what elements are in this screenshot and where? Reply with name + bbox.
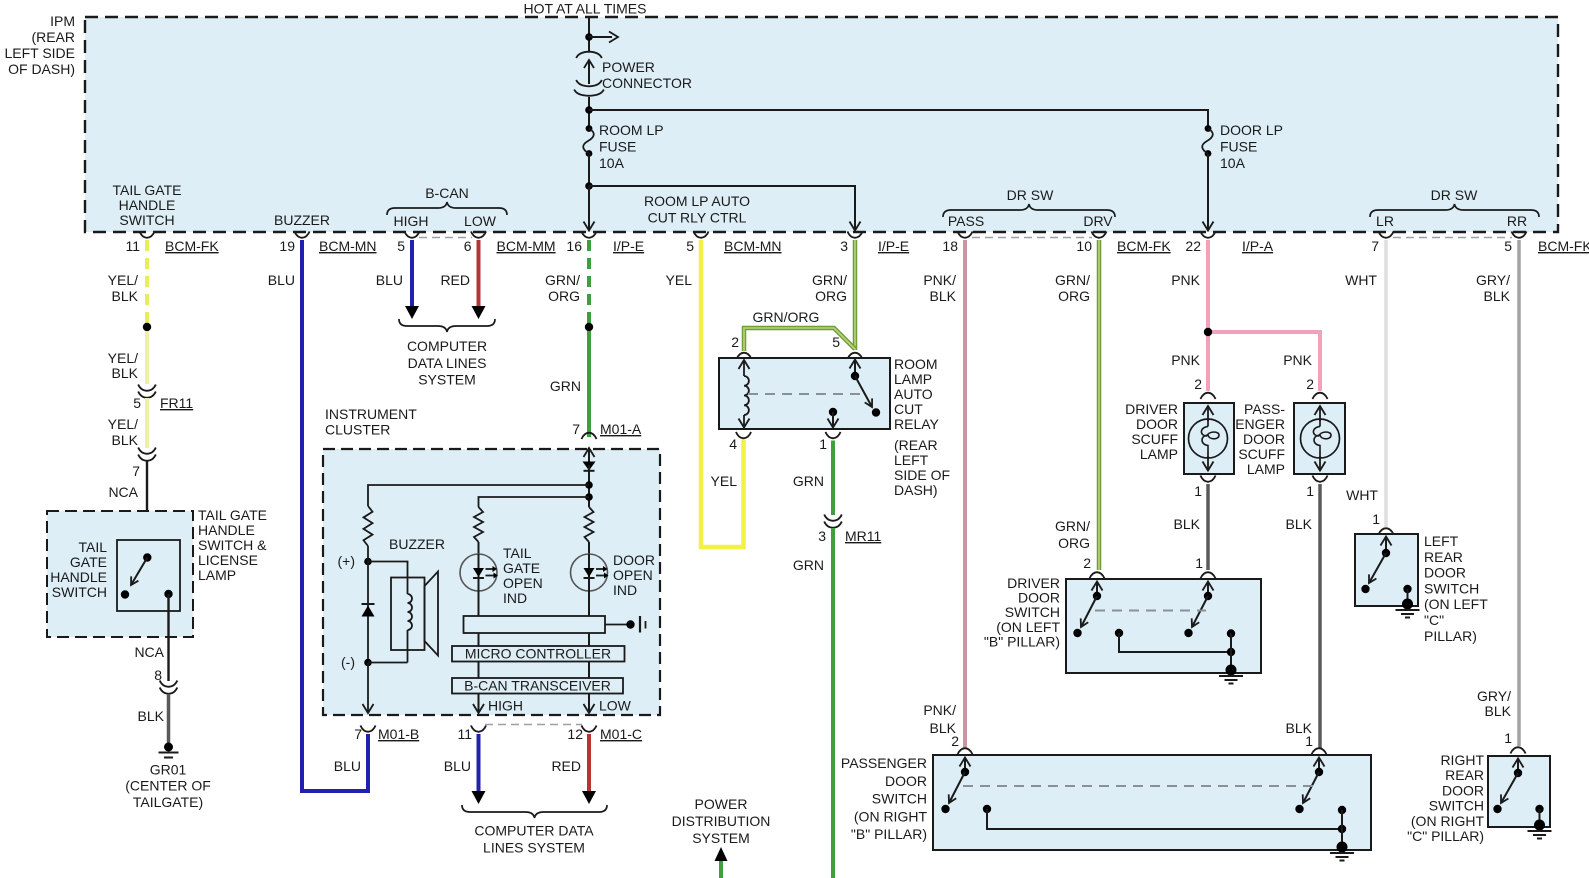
svg-text:1: 1 [1195,555,1203,571]
svg-text:3: 3 [840,238,848,254]
svg-text:TAILGATE): TAILGATE) [133,794,203,810]
room lamp auto cut relay box [719,356,950,498]
svg-text:SWITCH: SWITCH [52,584,107,600]
svg-text:TAIL GATE: TAIL GATE [113,182,182,198]
svg-text:GRY/: GRY/ [1477,688,1511,704]
LED tail gate open ind [460,542,543,606]
wire branch to other circuits with arrow [589,32,618,43]
pin 22 connector I/P-A on IPM [1185,232,1273,255]
svg-text:DOOR: DOOR [1442,782,1484,798]
svg-text:DOOR: DOOR [1243,431,1285,447]
relay pin 2 connector [731,334,751,359]
ground driver door switch [1219,665,1243,684]
svg-text:BLK: BLK [112,365,139,381]
node room lamp branch junction [585,182,593,190]
svg-text:10A: 10A [599,155,625,171]
svg-text:GRN/: GRN/ [1055,518,1090,534]
resistor tail gate ind [474,507,483,542]
svg-text:LOW: LOW [599,698,632,714]
right rear door switch ground path [1535,805,1543,825]
node fuse feed junction [585,106,593,114]
svg-text:DATA LINES: DATA LINES [408,355,487,371]
svg-text:SWITCH: SWITCH [1005,604,1060,620]
svg-text:BLK: BLK [930,288,957,304]
left rear door switch box [1355,533,1488,644]
svg-text:5: 5 [1504,238,1512,254]
pin 5 connector (group) on IPM [397,232,419,255]
svg-text:TAIL: TAIL [78,539,107,555]
svg-text:YEL/: YEL/ [108,416,138,432]
relay mechanical link (dashed) [748,393,863,395]
svg-text:ROOM LP: ROOM LP [599,122,664,138]
svg-text:BLK: BLK [138,708,165,724]
svg-text:ROOM LP AUTO: ROOM LP AUTO [644,193,750,209]
svg-text:SWITCH &: SWITCH & [198,537,267,553]
svg-text:3: 3 [818,528,826,544]
svg-text:7: 7 [354,726,362,742]
svg-text:I/P-A: I/P-A [1242,238,1274,254]
driver door switch connector pin 1 [1195,555,1215,579]
svg-text:LEFT: LEFT [1424,533,1459,549]
passenger door switch connector pin 1 [1305,733,1326,755]
label LOW (pin 6) [464,213,497,229]
svg-text:8: 8 [154,667,162,683]
svg-text:FUSE: FUSE [599,139,636,155]
svg-text:BUZZER: BUZZER [389,536,445,552]
pin 3 connector I/P-E on IPM [840,232,909,255]
connector group dash M01 pins 11-12 [485,724,582,726]
svg-text:COMPUTER DATA: COMPUTER DATA [474,823,594,839]
label DR SW brace left [943,187,1115,217]
connector M01 pin 11 [457,726,486,743]
svg-text:SYSTEM: SYSTEM [692,830,750,846]
pin 5 connector BCM-FK on IPM [1504,232,1589,255]
driver door switch connector pin 2 [1083,555,1104,579]
passenger door scuff lamp [1235,401,1345,477]
connector MR11 pin 3 [818,515,881,545]
svg-text:ENGER: ENGER [1235,416,1285,432]
svg-text:RED: RED [551,758,581,774]
svg-text:1: 1 [1504,730,1512,746]
svg-text:SCUFF: SCUFF [1131,431,1178,447]
svg-text:DISTRIBUTION: DISTRIBUTION [672,813,771,829]
svg-text:SWITCH: SWITCH [1429,798,1484,814]
svg-text:4: 4 [729,436,737,452]
svg-text:BLK: BLK [112,432,139,448]
buzzer sounder box and horn [391,572,438,656]
svg-text:HIGH: HIGH [394,213,429,229]
wire PNK to driver scuff lamp [1171,332,1208,391]
svg-text:LR: LR [1376,213,1394,229]
label PASS (pin 18) [948,213,984,229]
svg-text:(ON LEFT: (ON LEFT [1424,596,1488,612]
label B-CAN brace [387,185,507,215]
svg-text:ROOM: ROOM [894,356,938,372]
node splice YEL/BLK [143,323,151,331]
connector group dash BCM-FK pins 18-10 [972,237,1092,239]
svg-text:2: 2 [1194,376,1202,392]
left rear door switch connector pin 1 [1372,511,1393,535]
svg-text:2: 2 [731,334,739,350]
svg-text:DOOR: DOOR [885,773,927,789]
svg-text:ORG: ORG [1058,535,1090,551]
wire battery feed [588,17,590,51]
IC entry diode from M01-A [583,448,596,507]
svg-text:7: 7 [572,421,580,437]
svg-text:SWITCH: SWITCH [1424,580,1479,596]
wire YEL/BLK from pin 11 (dashed) [108,240,147,327]
wire YEL pin 5 to relay pin 4 [666,240,744,547]
svg-text:BLK: BLK [1286,516,1313,532]
svg-text:(-): (-) [341,654,355,670]
svg-text:I/P-E: I/P-E [613,238,644,254]
svg-text:BCM-FK: BCM-FK [165,238,219,254]
svg-text:22: 22 [1185,238,1201,254]
label LR (pin 7) [1376,213,1394,229]
tail gate handle switch inner box [117,540,180,611]
svg-text:PNK/: PNK/ [923,702,956,718]
left rear door switch ground path [1403,585,1411,604]
svg-text:M01-A: M01-A [600,421,642,437]
svg-text:IND: IND [503,590,527,606]
svg-text:ORG: ORG [1058,288,1090,304]
svg-text:SWITCH: SWITCH [119,212,174,228]
label ROOM LP AUTO CUT RLY CTRL (pin 3) [644,193,750,226]
wire GRN/ORG pin 10 to driver door switch [1055,240,1099,570]
svg-text:BCM-MN: BCM-MN [724,238,782,254]
svg-text:CUT RLY CTRL: CUT RLY CTRL [648,210,747,226]
connector M01-C pin 12 [567,726,642,743]
svg-text:HIGH: HIGH [488,698,523,714]
svg-text:WHT: WHT [1345,272,1377,288]
svg-text:RIGHT: RIGHT [1440,752,1484,768]
svg-text:"C": "C" [1424,612,1444,628]
wire NCA pin 7 into tail gate switch [108,461,147,557]
ground left rear door switch [1396,599,1420,618]
ground right rear door switch [1528,820,1552,839]
wire BLK to GR01 [138,694,169,747]
svg-text:5: 5 [686,238,694,254]
wire IC buzzer branch [368,485,589,506]
passenger door switch blade pin 1 [1295,758,1324,814]
right rear door switch box [1407,752,1550,844]
passenger door switch mechanical link [963,785,1317,787]
svg-text:GRN/: GRN/ [812,272,847,288]
svg-text:BLK: BLK [1485,703,1512,719]
svg-text:PNK: PNK [1171,272,1200,288]
wire GRN to power distribution [719,861,723,878]
svg-text:IND: IND [613,582,637,598]
passenger door switch box [841,755,1371,850]
svg-text:"B" PILLAR): "B" PILLAR) [851,826,927,842]
svg-text:AUTO: AUTO [894,386,933,402]
svg-text:POWER: POWER [602,59,655,75]
fuse DOOR LP FUSE 10A [1202,122,1283,171]
label BUZZER (pin 19) [274,212,330,228]
wire BLU pin 19 to M01-B [268,240,368,791]
relay switch blade pin 5 [850,360,881,417]
pin 16 connector I/P-E on IPM [566,232,644,255]
svg-text:GRN: GRN [550,378,581,394]
svg-text:POWER: POWER [695,796,748,812]
svg-text:DR SW: DR SW [1007,187,1054,203]
svg-text:RELAY: RELAY [894,416,940,432]
IC chassis reference mark [605,616,646,633]
power connector symbol [574,52,692,96]
node IC tailgate branch [585,493,593,501]
wire BLU M01 pin 11 to computer data lines [444,734,486,804]
svg-text:BUZZER: BUZZER [274,212,330,228]
svg-text:"C" PILLAR): "C" PILLAR) [1407,828,1484,844]
right rear door switch blade [1493,759,1523,814]
node battery feed junction [585,33,593,41]
wire GRN splice to M01-A [550,331,589,437]
svg-text:PNK/: PNK/ [923,272,956,288]
svg-text:DRV: DRV [1083,213,1113,229]
svg-text:GATE: GATE [503,560,540,576]
wire BLK passenger scuff to passenger door switch [1286,484,1320,748]
svg-text:1: 1 [819,436,827,452]
svg-text:GR01: GR01 [150,762,187,778]
svg-text:(+): (+) [338,553,356,569]
svg-text:LINES SYSTEM: LINES SYSTEM [483,840,585,856]
svg-text:DRIVER: DRIVER [1125,401,1178,417]
svg-text:NCA: NCA [108,484,138,500]
svg-text:DR SW: DR SW [1431,187,1478,203]
svg-text:TAIL GATE: TAIL GATE [198,507,267,523]
svg-text:5: 5 [397,238,405,254]
passenger door scuff lamp connector pin 2 [1306,376,1327,399]
passenger door switch connector pin 2 [951,733,972,755]
node PNK splice [1204,328,1212,336]
svg-text:BCM-FK: BCM-FK [1538,238,1589,254]
svg-text:BLU: BLU [444,758,471,774]
svg-text:7: 7 [132,463,140,479]
ground GR01 (CENTER OF TAILGATE) [125,743,211,810]
svg-text:10: 10 [1076,238,1092,254]
svg-text:GRY/: GRY/ [1476,272,1510,288]
pin 18 connector (group) on IPM [942,232,972,255]
connector FR11 pin 5 [133,385,193,412]
svg-text:PNK: PNK [1171,352,1200,368]
svg-text:PASSENGER: PASSENGER [841,755,927,771]
driver door scuff lamp [1125,401,1234,474]
svg-text:GRN/: GRN/ [1055,272,1090,288]
svg-text:GRN/: GRN/ [545,272,580,288]
driver door switch blade pin 1 [1184,582,1213,638]
svg-text:YEL/: YEL/ [108,272,138,288]
svg-text:I/P-E: I/P-E [878,238,909,254]
label DRV (pin 10) [1083,213,1113,229]
driver scuff lamp connector pin 1 [1194,476,1215,500]
svg-text:12: 12 [567,726,583,742]
arrow to power distribution system [715,847,728,861]
IC io block [464,591,606,633]
svg-text:"B" PILLAR): "B" PILLAR) [984,633,1060,649]
svg-text:DOOR: DOOR [1018,590,1060,606]
resistor buzzer [364,506,373,546]
wire GRN/ORG pin 3 to relay pin 5 [812,240,855,350]
svg-text:B-CAN: B-CAN [425,185,469,201]
svg-text:1: 1 [1194,483,1202,499]
wire room fuse output [588,154,590,187]
svg-text:BLU: BLU [376,272,403,288]
svg-text:DASH): DASH) [894,482,938,498]
connector group dash BCM-MM pins 5-6 [419,237,472,239]
left rear door switch blade [1361,537,1391,594]
passenger scuff lamp connector pin 1 [1306,476,1327,500]
svg-text:CUT: CUT [894,401,923,417]
svg-text:GRN: GRN [793,473,824,489]
svg-text:1: 1 [1305,733,1313,749]
svg-text:CLUSTER: CLUSTER [325,422,390,438]
connector group dash BCM-FK pins 7-5 [1393,237,1512,239]
pin 5 connector BCM-MN on IPM [686,232,781,255]
svg-text:(REAR: (REAR [894,437,938,453]
label POWER DISTRIBUTION SYSTEM [672,796,771,846]
micro controller box [452,633,625,662]
wire room fuse branch to pin 3 [589,186,861,231]
svg-text:LAMP: LAMP [1247,461,1285,477]
svg-text:YEL: YEL [666,272,693,288]
LED door open ind [571,542,656,598]
relay coil [739,360,750,428]
svg-text:FR11: FR11 [160,395,193,411]
svg-text:DRIVER: DRIVER [1007,575,1060,591]
svg-text:ORG: ORG [815,288,847,304]
wire power connector to fuse junction [588,97,590,128]
svg-text:PASS: PASS [948,213,984,229]
svg-text:FUSE: FUSE [1220,139,1257,155]
svg-text:(REAR: (REAR [31,29,75,45]
node buzzer minus [341,654,408,670]
driver door switch mechanical link [1095,610,1206,612]
svg-text:GRN/ORG: GRN/ORG [753,309,820,325]
svg-text:NCA: NCA [134,644,164,660]
svg-text:18: 18 [942,238,958,254]
switch contact tail gate handle switch [164,590,172,598]
wire to door lp fuse [589,110,1208,128]
IPM module box (REAR LEFT SIDE OF DASH) [4,13,1558,232]
switch blade tail gate handle switch [121,553,152,598]
connector M01-B pin 7 [334,726,419,775]
connector pin 8 inline [154,667,177,694]
svg-text:DOOR: DOOR [613,552,655,568]
label DR SW brace right [1370,187,1539,217]
svg-text:16: 16 [566,238,582,254]
wire BLU pin 5 to computer data lines [376,240,419,319]
svg-text:1: 1 [1372,511,1380,527]
svg-text:(CENTER OF: (CENTER OF [125,778,211,794]
ground passenger door switch [1330,842,1354,861]
wire IC high output [473,694,523,714]
svg-text:2: 2 [951,733,959,749]
driver door scuff lamp connector pin 2 [1194,376,1215,399]
svg-text:YEL: YEL [711,473,738,489]
svg-text:2: 2 [1306,376,1314,392]
right rear door switch connector pin 1 [1504,730,1525,754]
wire RED M01 pin 12 to computer data lines [551,734,596,804]
svg-text:PASS-: PASS- [1244,401,1285,417]
b-can transceiver box [452,662,623,694]
svg-text:2: 2 [1083,555,1091,571]
svg-text:LOW: LOW [464,213,497,229]
svg-text:HANDLE: HANDLE [50,569,107,585]
wire IC low output [584,694,632,714]
svg-text:OF DASH): OF DASH) [8,61,75,77]
svg-text:MICRO CONTROLLER: MICRO CONTROLLER [465,646,611,662]
svg-text:ORG: ORG [548,288,580,304]
relay pin 1 contact [828,408,839,428]
svg-text:OPEN: OPEN [613,567,653,583]
svg-text:DOOR: DOOR [1424,565,1466,581]
svg-text:PNK: PNK [1283,352,1312,368]
svg-text:LICENSE: LICENSE [198,552,258,568]
wire PNK pin 22 splice [1171,240,1208,332]
wire door fuse to pin 22 [1203,154,1214,231]
svg-text:CONNECTOR: CONNECTOR [602,75,692,91]
svg-text:BLK: BLK [1484,288,1511,304]
relay pin 1 connector [819,432,840,452]
pin 10 connector BCM-FK on IPM [1076,232,1171,255]
pin 6 connector BCM-MM on IPM [464,232,556,255]
label HIGH (pin 5) [394,213,429,229]
svg-text:7: 7 [1371,238,1379,254]
wire buzzer plus to coil [368,562,408,595]
wire GRN/ORG branch to relay pin 2 [744,309,855,351]
instrument cluster box [323,406,660,715]
brace computer data lines system (bottom) [462,805,607,856]
label HOT AT ALL TIMES [524,1,647,17]
svg-text:HANDLE: HANDLE [198,522,255,538]
svg-text:5: 5 [133,395,141,411]
svg-text:OPEN: OPEN [503,575,543,591]
svg-text:LAMP: LAMP [894,371,932,387]
svg-text:DOOR: DOOR [1136,416,1178,432]
wire PNK/BLK pin 18 to passenger door switch [923,240,965,748]
pin 19 connector BCM-MN on IPM [279,232,376,255]
relay pin 5 connector [832,334,862,359]
wire GRN MR11 down to room lamp [793,528,833,878]
svg-text:1: 1 [1306,483,1314,499]
driver door switch box [984,575,1261,673]
node splice GRN [585,323,593,331]
wire RED pin 6 to computer data lines [440,240,485,319]
svg-text:TAIL: TAIL [503,545,532,561]
wire PNK to passenger scuff lamp [1208,332,1320,391]
svg-text:M01-C: M01-C [600,726,642,742]
svg-text:GATE: GATE [70,554,107,570]
driver door switch blade pin 2 [1073,582,1102,638]
passenger door switch ground path [983,805,1346,847]
svg-text:BCM-FK: BCM-FK [1117,238,1171,254]
wire GRN/ORG from pin 16 (dashed) [545,240,589,327]
svg-text:BLK: BLK [1174,516,1201,532]
label BUZZER [389,536,445,552]
svg-text:11: 11 [125,238,140,254]
svg-text:BLK: BLK [112,288,139,304]
svg-text:LAMP: LAMP [198,567,236,583]
pin 11 connector BCM-FK on IPM [125,232,219,255]
svg-text:RED: RED [440,272,470,288]
svg-text:SIDE OF: SIDE OF [894,467,950,483]
svg-text:11: 11 [457,726,472,742]
fuse ROOM LP FUSE 10A [583,122,663,171]
pin 7 connector (group) on IPM [1371,232,1393,255]
label RR (pin 5) [1507,213,1527,229]
tail gate handle switch assembly box [47,507,267,637]
svg-text:PILLAR): PILLAR) [1424,628,1477,644]
